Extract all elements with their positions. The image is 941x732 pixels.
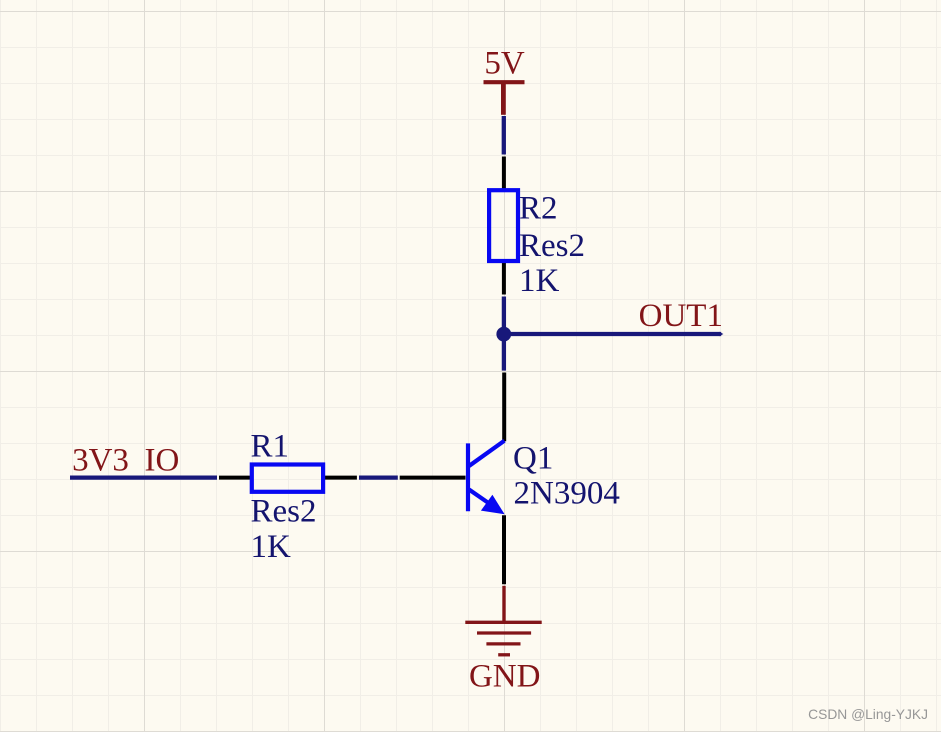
- svg-text:R1: R1: [251, 429, 290, 465]
- svg-text:Res2: Res2: [251, 494, 317, 530]
- svg-text:OUT1: OUT1: [639, 298, 723, 334]
- svg-text:IO: IO: [145, 443, 180, 479]
- svg-text:CSDN @Ling-YJKJ: CSDN @Ling-YJKJ: [808, 707, 928, 722]
- svg-text:Q1: Q1: [513, 441, 553, 477]
- svg-text:Res2: Res2: [519, 228, 585, 264]
- svg-text:5V: 5V: [484, 45, 525, 81]
- svg-text:2N3904: 2N3904: [514, 476, 620, 512]
- svg-text:GND: GND: [469, 659, 541, 695]
- svg-text:1K: 1K: [519, 263, 560, 299]
- svg-text:1K: 1K: [251, 529, 292, 565]
- svg-text:3V3: 3V3: [72, 443, 129, 479]
- svg-text:R2: R2: [519, 190, 558, 226]
